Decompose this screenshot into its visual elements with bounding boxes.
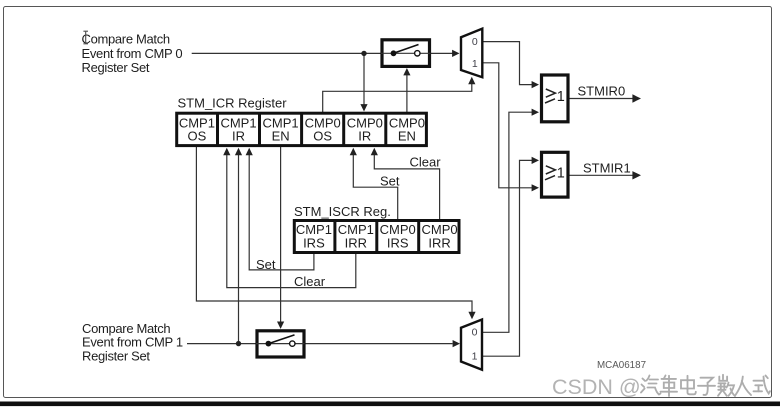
arrow into switch0 bottom (up) bbox=[403, 68, 410, 75]
glyph zi 子 bbox=[698, 378, 715, 395]
svg-text:CSDN @: CSDN @ bbox=[552, 375, 641, 399]
arrow into demux0 select (up) bbox=[468, 77, 475, 84]
arrow event CMP1 into ICR (up) bbox=[235, 148, 242, 155]
wire Set CMP0 bbox=[353, 155, 397, 220]
arrow select into demux1 top (down) bbox=[468, 312, 475, 319]
svg-text:Clear: Clear bbox=[410, 154, 442, 169]
glyph qi 汽 bbox=[641, 376, 661, 395]
arrow into OR1 bottom input (right) bbox=[532, 184, 539, 191]
watermark CJK glyphs (hand-drawn) bbox=[641, 375, 770, 396]
svg-text:Set: Set bbox=[256, 257, 276, 272]
arrow Clear CMP0 into ICR (up) bbox=[371, 148, 378, 155]
svg-text:0: 0 bbox=[472, 327, 478, 339]
arrow into demux0 left (right) bbox=[452, 50, 459, 57]
arrow into OR0 bottom input (right) bbox=[532, 109, 539, 116]
wire CMP1 OS select to demux1 bbox=[196, 147, 472, 313]
arrow Set CMP0 into ICR (up) bbox=[350, 148, 357, 155]
wire event CMP0 drop to CMP0 IR bbox=[363, 53, 365, 105]
glyph ru 入 bbox=[736, 377, 752, 396]
svg-text:1: 1 bbox=[557, 89, 565, 105]
wire demux1 out0 to OR0 bottom bbox=[482, 112, 532, 332]
wire event CMP0 horizontal bbox=[192, 52, 381, 54]
svg-text:1: 1 bbox=[557, 166, 565, 182]
svg-text:Set: Set bbox=[380, 174, 400, 189]
wire CMP1 EN to switch1 bbox=[280, 147, 282, 322]
glyph qian 嵌 bbox=[718, 375, 735, 396]
svg-text:STMIR1: STMIR1 bbox=[583, 160, 631, 175]
junction node on CMP1 event wire bbox=[236, 341, 241, 346]
arrow CMP1 EN into switch1 top (down) bbox=[277, 322, 284, 329]
svg-text:STMIR0: STMIR0 bbox=[578, 84, 626, 99]
svg-text:STM_ICR Register: STM_ICR Register bbox=[178, 96, 288, 111]
arrow into OR1 top input (right) bbox=[532, 157, 539, 164]
wire demux1 out1 to OR1 top bbox=[482, 160, 532, 356]
arrow Set CMP1 into ICR (up) bbox=[246, 148, 253, 155]
wire CMP0 EN to switch0 bbox=[406, 75, 408, 113]
glyph dian 电 bbox=[681, 376, 696, 395]
junction node on CMP0 event wire bbox=[361, 51, 366, 56]
wire Clear CMP1 bbox=[227, 155, 356, 288]
svg-text:STM_ISCR Reg.: STM_ISCR Reg. bbox=[294, 204, 391, 219]
glyph shi 式 bbox=[754, 376, 771, 394]
arrow STMIR1 end (right) bbox=[632, 171, 641, 179]
arrow into CMP0 IR top (down) bbox=[360, 104, 367, 111]
svg-text:1: 1 bbox=[472, 58, 478, 70]
wire STMIR1 out bbox=[570, 174, 634, 176]
svg-text:0: 0 bbox=[472, 36, 478, 48]
wire switch0 to demux0 bbox=[431, 52, 453, 54]
wire Set CMP1 bbox=[249, 155, 314, 270]
svg-text:MCA06187: MCA06187 bbox=[597, 360, 646, 371]
wire demux0 out1 to OR1 bottom bbox=[482, 63, 532, 188]
bottom black bar bbox=[0, 402, 780, 407]
wire demux0 out0 to OR0 top bbox=[482, 42, 532, 85]
glyph che 车 bbox=[661, 376, 678, 397]
wire event CMP1 rise to CMP1 IR bbox=[238, 155, 240, 344]
svg-text:1: 1 bbox=[472, 351, 478, 363]
arrow into demux1 left (right) bbox=[453, 340, 460, 347]
wire switch1 to demux1 bbox=[305, 343, 453, 345]
wire Clear CMP0 bbox=[374, 155, 439, 220]
arrow into OR0 top input (right) bbox=[532, 81, 539, 88]
wire STMIR0 out bbox=[570, 98, 634, 100]
text cursor artifact over C bbox=[83, 31, 88, 44]
wire CMP0 OS select to demux0 bbox=[323, 84, 472, 113]
wire event CMP1 horizontal bbox=[187, 343, 256, 345]
svg-text:Clear: Clear bbox=[294, 274, 326, 289]
arrow Clear CMP1 into ICR (up) bbox=[223, 148, 230, 155]
arrow STMIR0 end (right) bbox=[632, 94, 641, 102]
